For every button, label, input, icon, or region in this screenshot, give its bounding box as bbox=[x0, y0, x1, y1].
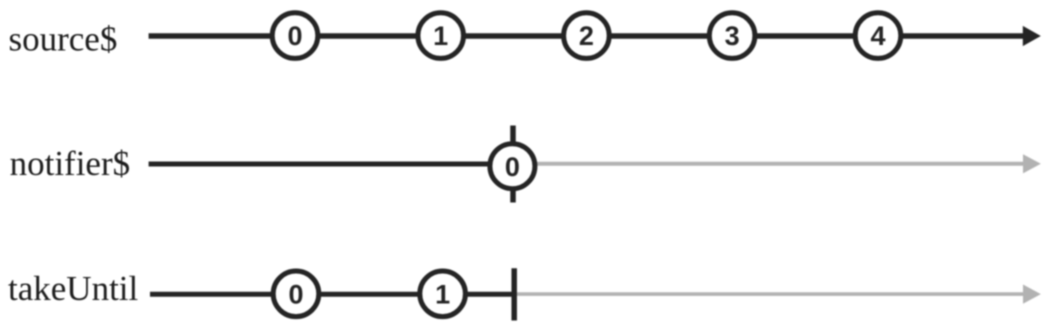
svg-text:notifier$: notifier$ bbox=[10, 144, 131, 183]
marble 0 (takeUntil) bbox=[273, 271, 319, 317]
svg-text:1: 1 bbox=[435, 279, 450, 309]
wire notifier$ black segment bbox=[149, 162, 495, 167]
marble 2 (source$) bbox=[564, 13, 610, 59]
arrowhead notifier$ (gray) bbox=[1023, 154, 1041, 173]
arrowhead source$ bbox=[1023, 26, 1041, 46]
svg-text:0: 0 bbox=[505, 152, 520, 182]
svg-text:3: 3 bbox=[725, 21, 740, 51]
marble 1 (source$) bbox=[418, 13, 464, 59]
marble 0 (source$) bbox=[272, 13, 318, 59]
marble 4 (source$) bbox=[855, 13, 901, 59]
svg-text:takeUntil: takeUntil bbox=[8, 269, 139, 308]
arrowhead takeUntil (gray) bbox=[1023, 285, 1041, 304]
svg-text:4: 4 bbox=[870, 21, 885, 51]
marble 1 (takeUntil) bbox=[420, 271, 466, 317]
wire takeUntil gray segment bbox=[517, 292, 1025, 296]
completion bar takeUntil bbox=[511, 268, 517, 320]
svg-text:2: 2 bbox=[579, 21, 594, 51]
marble 3 (source$) bbox=[709, 13, 755, 59]
wire source$ timeline bbox=[149, 33, 1026, 39]
wire notifier$ gray segment bbox=[530, 162, 1025, 166]
svg-text:0: 0 bbox=[288, 279, 303, 309]
svg-text:source$: source$ bbox=[9, 19, 118, 58]
tick through notifier marble bbox=[510, 126, 516, 203]
marble 0 (notifier$) bbox=[490, 144, 535, 189]
svg-text:1: 1 bbox=[433, 21, 448, 51]
svg-text:0: 0 bbox=[287, 21, 302, 51]
wire takeUntil black segment bbox=[150, 292, 514, 297]
